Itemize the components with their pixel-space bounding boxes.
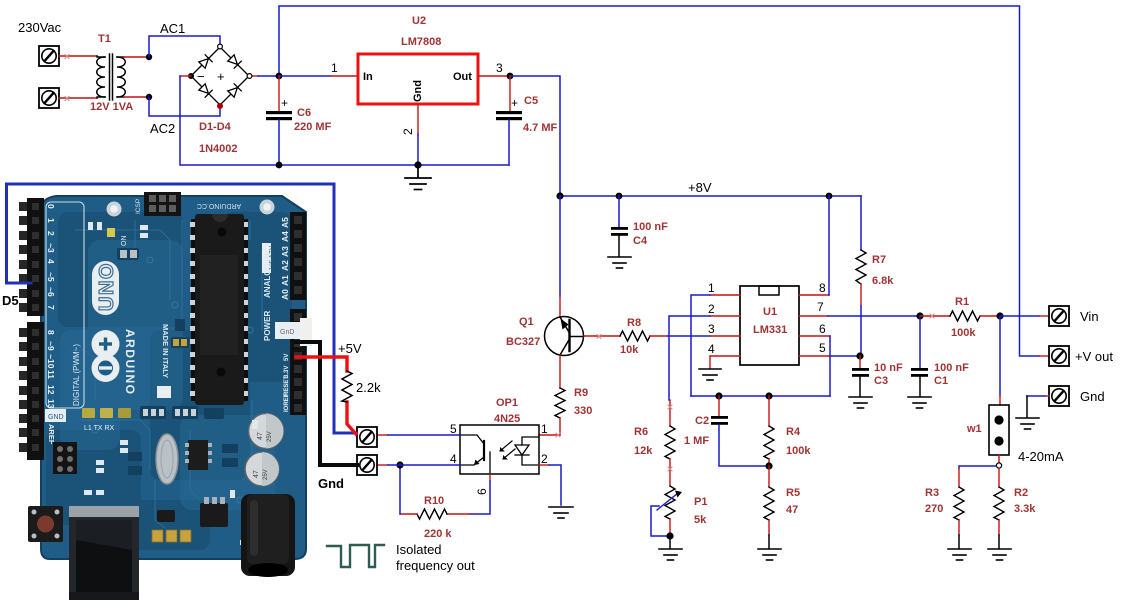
potentiometer P1 [651,486,682,548]
diode D4 bottom-right [227,84,241,98]
wire R9 to OP1 pin1 [559,418,561,435]
svg-text:A4: A4 [280,231,290,242]
svg-text:~9: ~9 [46,341,56,351]
svg-text:ICSP: ICSP [135,199,142,214]
led row TX RX L [82,408,131,432]
pin x markers [65,55,934,472]
silk analog labels [280,217,290,300]
svg-text:1N4002: 1N4002 [199,143,238,155]
svg-text:P1: P1 [694,496,707,508]
junction gnd node [396,461,403,468]
wire AC1 [149,36,220,57]
wire R8 to U1 pin3 [650,335,668,337]
resistor R9 [555,388,565,418]
junction out node [507,73,514,80]
svg-text:12V 1VA: 12V 1VA [90,101,133,113]
header socket holes lower [32,329,39,451]
crystal oscillator [156,434,178,484]
svg-text:R6: R6 [634,426,648,438]
svg-text:7: 7 [817,300,824,314]
wire Q1 base to R8 [584,335,620,337]
capacitor C2 [711,396,769,466]
wire terminal2 to T1 primary [59,97,97,99]
w1 pad top [994,415,1003,424]
smd chip 8pin [188,440,208,470]
smd parts near top [117,248,139,260]
jumper w1 box [989,405,1009,455]
arduino logo circle plus [92,330,120,358]
svg-text:GnD: GnD [280,329,294,336]
svg-text:Q1: Q1 [519,316,534,328]
wire Gnd hookup black [296,342,357,465]
resistor R7 [856,196,866,356]
svg-text:5V: 5V [284,354,290,361]
svg-text:Gnd: Gnd [1080,389,1105,404]
wire OP1 pin2 to ground [539,464,549,466]
svg-text:2.2k: 2.2k [356,380,381,395]
screw terminal Gnd side [357,455,377,475]
svg-text:Isolated: Isolated [396,542,442,557]
IC U1 LM331 box [740,286,799,365]
svg-text:ANALOG IN: ANALOG IN [263,253,272,298]
svg-text:25V: 25V [263,469,269,480]
svg-text:8: 8 [46,330,56,335]
svg-text:R4: R4 [786,426,801,438]
svg-text:BC327: BC327 [506,336,540,348]
wire node to U2 pin1 [279,75,330,77]
svg-text:6: 6 [819,322,826,336]
svg-text:R9: R9 [574,387,588,399]
svg-text:10k: 10k [620,344,639,356]
svg-text:8: 8 [819,281,826,295]
svg-text:+V out: +V out [1075,349,1113,364]
diode D1 top-right [227,54,241,68]
svg-text:ARDUINO.CC: ARDUINO.CC [197,202,241,209]
ARDUINO UNO photo (stylized) [19,192,312,600]
svg-text:A1: A1 [280,275,290,286]
svg-text:DIGITAL (PWM~): DIGITAL (PWM~) [72,344,81,406]
U1 pin6 [799,335,830,337]
wire +Vout stub [1039,355,1049,357]
svg-text:3: 3 [708,322,715,336]
terminal block X1-1 [39,46,59,66]
icon square wave [327,545,384,567]
diode bridge D1-D4 outline [191,47,249,105]
junction C4 [616,193,623,200]
smd resistors row [140,406,224,419]
arduino pcb body [41,196,306,559]
svg-text:RESET: RESET [284,376,290,396]
svg-text:UNO: UNO [96,262,118,311]
ground OP1 [549,507,573,518]
svg-text:AC2: AC2 [150,121,175,136]
svg-text:4.7 MF: 4.7 MF [523,122,558,134]
svg-text:Gnd: Gnd [318,476,344,491]
svg-text:100k: 100k [786,445,811,457]
bridge top pin circle [218,44,223,49]
wire AC2 [149,97,220,116]
resistor R10 [417,509,447,519]
svg-text:+: + [281,96,288,110]
wire terminal2 to OP1 pin4 [377,464,388,466]
screw terminal Vin [1049,306,1069,326]
junction pin5 node [856,352,863,359]
w1 bottom stub [998,455,1000,463]
atmega328 DIP chip [190,214,248,405]
mounting hole top-left [107,202,122,217]
U1 pin4 [710,355,740,357]
wire R10 to gnd node [400,513,417,515]
svg-text:C2: C2 [695,415,709,427]
svg-text:MADE IN ITALY: MADE IN ITALY [161,324,170,378]
svg-text:6.8k: 6.8k [872,275,894,287]
wire +8V to Q1 collector [559,196,561,296]
svg-text:220 k: 220 k [424,528,452,540]
resistor R4 [764,396,774,466]
voltage regulator smd [200,503,228,527]
svg-text:330: 330 [574,405,592,417]
barrel jack [241,494,295,577]
svg-text:R7: R7 [872,254,886,266]
ground R2 [988,549,1011,560]
junction secondary bottom [146,94,152,100]
bottom rail pins 1-6 [691,395,830,397]
icsp2 header bottom-left [53,442,77,474]
w1 bottom pin circle [996,463,1001,468]
svg-text:OP1: OP1 [496,397,518,409]
svg-text:ARDUINO: ARDUINO [123,329,137,396]
svg-text:ON: ON [121,236,128,247]
svg-text:4: 4 [46,259,56,264]
svg-text:1: 1 [46,218,56,223]
ground P1 [659,549,682,560]
analog header strip [290,212,306,300]
svg-text:C6: C6 [297,107,311,119]
svg-text:IOREF: IOREF [284,393,290,412]
junction Vin node [996,312,1003,319]
OP1 light arrows [500,441,515,460]
resistor R1 [950,311,980,321]
smd cluster mid [171,337,189,348]
silk REV3 white box [262,243,271,273]
svg-text:A3: A3 [280,246,290,257]
mounting hole top-right [260,200,275,215]
svg-text:3.3k: 3.3k [1014,503,1036,515]
svg-text:2: 2 [541,452,548,466]
svg-text:~10: ~10 [46,354,56,369]
svg-text:3: 3 [496,61,503,75]
wire terminal1 to OP1 pin5 [377,434,388,436]
svg-text:100 nF: 100 nF [934,362,969,374]
regulator U2 box [358,54,478,104]
U1 pin1 [710,294,740,296]
ground R5 [758,549,781,560]
smd small caps row [128,444,238,475]
svg-text:R5: R5 [786,487,800,499]
wire w1 to R3 [959,466,996,468]
junction C6 ground [276,162,283,169]
ground symbol main [405,165,431,190]
svg-text:+5V: +5V [338,341,362,356]
svg-text:25V: 25V [267,431,273,442]
svg-text:100 nF: 100 nF [633,221,668,233]
wire top +8V rail from bridge node to right side [279,6,1039,356]
arduino logo ring minus [92,354,120,382]
svg-text:4: 4 [450,452,457,466]
svg-text:13: 13 [46,399,56,409]
silk GND white box [45,409,66,422]
bridge left junction dot [188,73,194,79]
ground U1 pin4 [699,369,721,380]
svg-text:2: 2 [708,302,715,316]
capacitor C1 [911,316,928,396]
svg-text:5k: 5k [694,514,707,526]
pcb shading patches [46,212,292,550]
resistor R6 [665,400,675,486]
screw terminal +V out [1049,346,1069,366]
w1 pad bottom [994,436,1003,445]
svg-text:T1: T1 [98,33,111,45]
svg-text:1: 1 [541,422,548,436]
ground C4 [608,257,631,268]
junction R4 R5 C2 [765,462,772,469]
svg-text:0: 0 [46,204,56,209]
svg-text:47: 47 [257,432,264,440]
svg-text:1: 1 [331,61,338,75]
optocoupler OP1 box [460,425,539,474]
diode D2 top-left [198,55,212,69]
digital header strip lower [27,322,44,460]
svg-text:R1: R1 [955,296,969,308]
svg-text:Gnd: Gnd [412,80,424,102]
wire ground rail to C5 bottom [279,164,509,166]
UNO capsule [92,261,119,315]
wire T1 secondary top to node [124,56,149,58]
wire Q1 emitter to R9 [559,355,561,388]
svg-text:LM7808: LM7808 [401,36,441,48]
svg-text:230Vac: 230Vac [18,20,62,35]
svg-text:C4: C4 [633,235,648,247]
pcb traces [70,220,262,528]
terminal block X1-2 [39,88,59,108]
svg-text:C1: C1 [934,375,948,387]
big electrolytic cap 1 [249,414,284,449]
junction +8V left [556,192,563,199]
svg-text:~5: ~5 [46,272,56,282]
ground C1 [908,397,931,408]
svg-text:R3: R3 [925,487,939,499]
wire bridge right to node [252,75,259,77]
junction C1 node [916,312,923,319]
white connector tab right edge [300,318,312,346]
svg-text:+8V: +8V [688,180,712,195]
junction pin8 [826,193,833,200]
+8V rail [560,195,861,197]
U1 pin5 [799,355,830,357]
resistor R5 [764,466,774,548]
digital header strip upper [27,198,44,316]
junction main ground [414,161,421,168]
junction C2 rail [715,392,722,399]
svg-text:A2: A2 [280,260,290,271]
svg-text:~3: ~3 [46,243,56,253]
header socket holes upper [32,203,39,311]
U2 pin3 out wire [478,75,510,77]
wire C1 node to R1 [920,315,950,317]
ground Gnd terminal [1016,418,1039,429]
svg-text:Out: Out [453,71,472,83]
svg-text:4: 4 [708,342,715,356]
svg-text:D5: D5 [2,293,19,308]
svg-text:A5: A5 [280,217,290,228]
white smd pads scatter [84,222,258,545]
resistor R3 [954,487,964,520]
svg-text:−: − [197,69,205,84]
capacitor C3 [852,356,869,396]
silk ON led [107,228,115,237]
svg-text:D1-D4: D1-D4 [199,121,232,133]
capacitor C4 [611,196,628,256]
U1 pin2 [710,315,740,317]
svg-text:220 MF: 220 MF [294,121,332,133]
svg-text:POWER: POWER [263,311,272,341]
svg-text:2: 2 [401,128,415,135]
reset button [28,506,63,542]
ground R3 [948,549,971,560]
white Gnd pin tab [275,322,300,339]
silk digital box [46,202,84,408]
capacitor C5 [496,76,522,165]
header pin bumps left edge [19,202,27,452]
svg-text:7: 7 [46,305,56,310]
wire Vin node down to w1 [999,316,1001,396]
svg-text:LM331: LM331 [753,324,787,336]
svg-text:10 nF: 10 nF [874,362,903,374]
svg-text:5: 5 [819,341,826,355]
big electrolytic cap 2 [245,452,279,486]
svg-text:frequency out: frequency out [396,558,475,573]
wire R1 to Vin node [980,315,1000,317]
transformer T1 [97,54,126,100]
svg-text:270: 270 [925,503,943,515]
ground C3 [849,397,872,408]
junction R4 rail [765,392,772,399]
resistor R2 [994,487,1004,520]
OP1 inner LED [515,437,539,465]
screw terminal +5V side [357,427,377,447]
svg-text:+: + [511,96,518,110]
svg-text:R8: R8 [627,317,641,329]
wire bridge left to ground rail [180,75,191,77]
svg-text:47: 47 [253,470,260,478]
junction bridge output node [276,73,283,80]
U1 pin3 [710,335,740,337]
wire out node to +8V vertical [510,76,560,196]
OP1 pin6 wire to R10 [489,474,491,481]
svg-text:11: 11 [46,370,56,379]
silk power labels [284,354,290,412]
OP1 inner phototransistor [460,435,490,474]
screw terminal Gnd out [1049,386,1069,406]
resistor R8 [620,331,650,341]
U1 pin8 [799,294,829,296]
svg-text:R10: R10 [424,495,444,507]
svg-text:Vin: Vin [1080,309,1099,324]
svg-text:47: 47 [786,504,798,516]
svg-text:4-20mA: 4-20mA [1018,449,1064,464]
svg-text:R2: R2 [1014,487,1028,499]
svg-text:C3: C3 [874,375,888,387]
svg-text:In: In [363,71,373,83]
diode D3 bottom-left [198,83,212,97]
svg-text:5: 5 [450,422,457,436]
svg-text:C5: C5 [524,95,538,107]
bridge bottom junction red dot [217,103,223,109]
svg-text:U2: U2 [412,15,426,27]
U2 pin2 wire [417,104,419,134]
wire node to Vin terminal [1000,315,1039,317]
svg-text:U1: U1 [763,306,777,318]
svg-text:+: + [217,69,225,84]
U1 notch [759,286,779,295]
svg-text:GND: GND [48,414,64,421]
gold smd caps [152,530,191,542]
svg-text:AC1: AC1 [160,21,185,36]
small transistor [157,510,175,522]
resistor 2.2k pullup [342,371,352,402]
silk digital pin labels [46,204,56,409]
transistor Q1 BC327 [545,317,584,356]
power header strip [290,309,306,415]
svg-text:100k: 100k [951,327,976,339]
usb connector [69,506,139,600]
svg-text:12k: 12k [634,445,653,457]
svg-text:L1 TX RX: L1 TX RX [84,425,115,432]
reset EN silk box [157,386,171,398]
wire D5 hookup [7,184,357,433]
bridge right pin circle [247,74,252,79]
wire +5V hookup red [296,357,347,371]
ICSP header top [144,192,181,216]
svg-text:w1: w1 [966,423,982,435]
junction secondary top [146,54,152,60]
svg-text:4N25: 4N25 [494,413,520,425]
U1 pin7 [799,315,828,317]
svg-text:~6: ~6 [46,287,56,297]
wire w1 to R2 [998,468,1000,487]
wire Gnd terminal to ground [1045,395,1049,397]
svg-text:1: 1 [708,281,715,295]
wire T1 secondary bottom to node [124,96,149,98]
svg-text:A0: A0 [280,289,290,300]
svg-text:1 MF: 1 MF [684,435,709,447]
svg-text:2: 2 [46,231,56,236]
svg-text:AREF: AREF [47,424,56,445]
svg-text:12: 12 [46,385,56,395]
capacitor C6 [266,76,292,165]
svg-text:6: 6 [475,488,489,495]
wire terminal1 to T1 primary [59,55,97,57]
junction P1 wiper [666,532,673,539]
